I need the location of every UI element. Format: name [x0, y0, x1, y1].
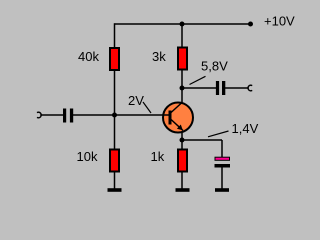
ground under R4 [176, 188, 190, 192]
output terminal [248, 85, 252, 91]
svg-text:3k: 3k [152, 49, 166, 64]
wire: rail down to R2 3k top [181, 24, 183, 48]
resistor R3 10k [110, 150, 119, 172]
node: supply terminal dot [248, 22, 253, 27]
wire: R1 bottom to R3 top (left vertical) [114, 70, 116, 150]
svg-text:40k: 40k [78, 49, 99, 64]
svg-text:1k: 1k [151, 149, 165, 164]
capacitor C1 input coupling [63, 109, 73, 123]
wire: R3 bottom to ground [114, 172, 116, 190]
svg-text:2V: 2V [128, 93, 144, 108]
ground under C3 [215, 188, 229, 192]
wire: R4 bottom to ground [181, 172, 183, 190]
label +10V [264, 14, 295, 29]
wire: C2 to output terminal [225, 87, 249, 89]
label 2V with pointer [128, 93, 151, 113]
junction dot: emitter node [180, 138, 185, 143]
capacitor C3 emitter bypass electrolytic [215, 157, 231, 167]
svg-text:+10V: +10V [264, 14, 295, 29]
wire: C1 to transistor base [73, 114, 163, 116]
junction dot: rail to 3k branch [180, 22, 185, 27]
resistor R2 3k [178, 48, 187, 70]
wire: collector node to C2 [182, 87, 216, 89]
wire: C3 bottom to ground [221, 168, 223, 190]
svg-text:10k: 10k [77, 149, 98, 164]
wire: input terminal to C1 [40, 114, 63, 116]
resistor R1 40k [110, 48, 119, 70]
wire: R2 bottom to transistor collector [181, 70, 183, 104]
svg-text:1,4V: 1,4V [232, 121, 259, 136]
svg-text:5,8V: 5,8V [201, 59, 228, 74]
wire: rail down to R1 40k top [114, 23, 116, 48]
resistor R4 1k [178, 150, 187, 172]
label 5,8V with pointer [190, 59, 229, 85]
label 10k [77, 149, 98, 164]
capacitor C2 output coupling [216, 81, 225, 95]
junction dot: base node on divider [112, 113, 117, 118]
ground under R3 [108, 188, 122, 192]
label 40k [78, 49, 99, 64]
wire: emitter node to bypass cap (horizontal + vertical) [182, 140, 222, 158]
transistor Q1 NPN [163, 103, 193, 133]
input terminal [37, 112, 41, 118]
wire: +10V supply rail [115, 23, 251, 25]
label 1k [151, 149, 165, 164]
label 3k [152, 49, 166, 64]
wire: emitter to junction [181, 133, 183, 150]
label 1,4V with pointer [208, 121, 259, 137]
junction dot: collector node [180, 86, 185, 91]
